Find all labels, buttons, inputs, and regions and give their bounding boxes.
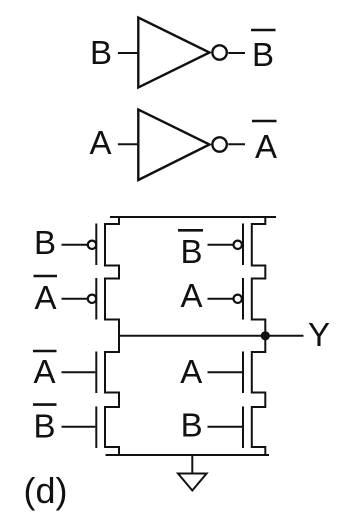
ground stem: [191, 455, 193, 473]
svg-text:B: B: [33, 408, 55, 445]
transistor Q2 gate bubble: [88, 295, 96, 303]
transistor Q5 NMOS gate plate (A-bar, left): [95, 352, 97, 394]
node Y junction dot: [261, 331, 270, 340]
transistor Q4 gate wire: [208, 298, 234, 300]
svg-text:Y: Y: [308, 316, 330, 353]
svg-text:B: B: [34, 224, 56, 261]
svg-text:B: B: [180, 233, 202, 270]
svg-text:A: A: [255, 128, 277, 165]
svg-text:A: A: [180, 353, 202, 390]
transistor Q2 gate wire: [62, 298, 88, 300]
wire U2 input: [118, 143, 137, 145]
wire U1 output: [228, 52, 245, 54]
svg-text:(d): (d): [24, 470, 68, 511]
svg-text:A: A: [34, 279, 56, 316]
wire right branch trunk with source/drain stubs: [252, 216, 265, 456]
svg-text:B: B: [90, 34, 112, 71]
transistor Q3 gate bubble: [234, 241, 242, 249]
transistor Q2 PMOS gate plate (A-bar, left): [95, 278, 97, 320]
transistor Q5 gate wire: [62, 371, 96, 373]
svg-text:A: A: [180, 277, 202, 314]
transistor Q3 PMOS gate plate (B-bar, top-right): [242, 224, 244, 266]
transistor Q3 gate wire: [208, 244, 234, 246]
transistor Q1 gate wire: [62, 244, 88, 246]
wire output node Y: [118, 335, 304, 337]
inverter U2 output bubble: [212, 137, 226, 151]
transistor Q1 gate bubble: [88, 241, 96, 249]
transistor Q4 gate bubble: [234, 295, 242, 303]
svg-text:A: A: [89, 124, 111, 161]
transistor Q8 gate wire: [208, 426, 243, 428]
inverter U1 output bubble: [212, 45, 226, 59]
GND rail: [106, 454, 270, 456]
svg-text:B: B: [181, 407, 203, 444]
wire U1 input: [118, 52, 137, 54]
transistor Q7 NMOS gate plate (A, right): [242, 352, 244, 394]
transistor Q7 gate wire: [208, 371, 243, 373]
svg-text:A: A: [33, 353, 55, 390]
transistor Q1 PMOS gate plate (B, top-left): [95, 224, 97, 266]
inverter U1: [138, 18, 209, 88]
wire left branch trunk with source/drain stubs: [105, 216, 119, 456]
ground symbol: [178, 474, 207, 491]
transistor Q6 gate wire: [62, 426, 96, 428]
transistor Q6 NMOS gate plate (B-bar, left): [95, 407, 97, 449]
VDD rail: [110, 216, 276, 218]
inverter U2: [138, 110, 209, 181]
wire U2 output: [228, 143, 245, 145]
transistor Q8 NMOS gate plate (B, right): [242, 407, 244, 449]
transistor Q4 PMOS gate plate (A, right): [242, 278, 244, 320]
svg-text:B: B: [252, 36, 274, 73]
